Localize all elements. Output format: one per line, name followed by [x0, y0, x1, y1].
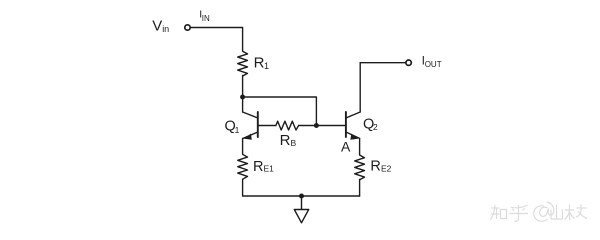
shan	[551, 205, 563, 220]
svg-text:E1: E1	[264, 164, 275, 174]
wire Q2 emitter down to RE2	[359, 138, 361, 155]
svg-text:V: V	[152, 18, 162, 35]
label Q1	[225, 119, 240, 135]
node RB-right junction	[314, 123, 319, 128]
wire Q2 collector up	[359, 63, 361, 112]
label RB	[280, 132, 297, 149]
svg-text:IN: IN	[202, 14, 210, 23]
zhi1	[491, 205, 507, 220]
resistor R1	[238, 51, 248, 76]
svg-text:2: 2	[373, 122, 378, 132]
svg-text:in: in	[162, 24, 169, 34]
watermark zhihu @shanzhi	[491, 202, 588, 222]
svg-text:1: 1	[235, 125, 240, 135]
label IIN	[199, 8, 210, 23]
label RE1	[253, 159, 274, 175]
svg-text:R: R	[253, 159, 263, 175]
transistor Q1	[243, 112, 276, 140]
ground	[294, 196, 308, 223]
bottom rail wire	[243, 195, 360, 197]
node A1 (R1 bottom junction)	[240, 95, 245, 100]
resistor RB	[276, 121, 299, 130]
wire RB to Q2 base	[299, 125, 346, 127]
resistor RE1	[238, 154, 248, 179]
wire RE2 bottom to rail	[359, 180, 361, 197]
wire node down to Q1 collector	[242, 97, 244, 112]
transistor Q2	[346, 112, 360, 140]
at	[534, 202, 554, 221]
svg-text:R: R	[254, 55, 265, 72]
label Vin	[152, 18, 169, 35]
svg-text:R: R	[280, 132, 291, 149]
wire input to R1 top corner	[190, 28, 242, 52]
label IOUT	[422, 54, 442, 70]
svg-text:R: R	[370, 158, 380, 174]
output terminal (Iout)	[406, 60, 411, 65]
svg-text:A: A	[341, 138, 351, 154]
label R1	[254, 55, 269, 72]
wire to output terminal	[360, 62, 406, 64]
label RE2	[370, 158, 391, 174]
hu	[510, 205, 529, 222]
wire R1 bottom to node	[242, 76, 244, 98]
resistor RE2	[355, 155, 365, 180]
label Q2	[363, 117, 378, 133]
svg-text:OUT: OUT	[425, 60, 442, 69]
svg-text:1: 1	[264, 61, 269, 71]
wire Q1 emitter down to RE1	[242, 138, 244, 154]
input terminal (Vin)	[185, 25, 190, 30]
node ground junction	[299, 194, 304, 199]
wire RE1 bottom to rail	[242, 180, 244, 197]
wire node to right corner	[243, 97, 317, 126]
svg-text:B: B	[291, 138, 297, 148]
svg-text:E2: E2	[381, 164, 392, 174]
zhi2	[565, 205, 588, 221]
